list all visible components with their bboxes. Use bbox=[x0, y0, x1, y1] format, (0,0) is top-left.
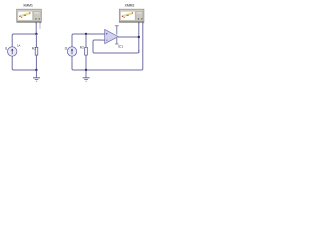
op-amp IC1 V+ pin bar bbox=[115, 25, 119, 27]
node C junction dot (top of R2) bbox=[85, 33, 87, 35]
multimeter XMM2 terminal pins bbox=[138, 22, 139, 23]
wire XMM2 left terminal down through node B to feedback rail bbox=[138, 23, 140, 53]
op-amp IC1 V+ pin stub bbox=[116, 26, 118, 35]
wire feedback corner bbox=[137, 50, 138, 53]
wire top rail I2 to op-amp input bbox=[72, 34, 105, 47]
wire node C to R2 top bbox=[85, 34, 87, 47]
multimeter XMM2 body bbox=[119, 9, 144, 22]
node A junction dot bbox=[35, 33, 37, 35]
op-amp IC1 V- pin bar bbox=[115, 43, 118, 45]
ground (right circuit) bbox=[83, 70, 90, 81]
multimeter XMM1 terminal pins bbox=[36, 22, 37, 23]
wire XMM2 right terminal down to bottom rail bbox=[86, 23, 143, 70]
wire feedback loop to inverting input bbox=[93, 40, 137, 53]
op-amp IC1 V- pin stub bbox=[116, 38, 118, 44]
svg-text:IC1: IC1 bbox=[118, 45, 123, 49]
wire op-amp output to node B bbox=[118, 36, 139, 38]
multimeter XMM1 body bbox=[17, 9, 42, 22]
resistor R1 bbox=[35, 47, 38, 55]
wire XMM1 left terminal down to node A bbox=[35, 23, 37, 34]
wire I2 bottom to bottom rail bbox=[72, 56, 86, 70]
svg-text:XMM2: XMM2 bbox=[125, 4, 135, 8]
wire XMM1 right terminal stub bbox=[39, 23, 41, 29]
svg-text:XMM1: XMM1 bbox=[23, 4, 33, 8]
wire R1 bottom to ground node bbox=[35, 55, 37, 70]
node B junction dot bbox=[138, 36, 140, 38]
wire node A horizontal to source I1 bbox=[12, 34, 36, 47]
wire node A to R1 top bbox=[35, 34, 37, 47]
op-amp IC1 bbox=[101, 29, 119, 43]
wire R2 bottom to bottom node bbox=[85, 55, 87, 70]
wire I1 bottom to bottom rail bbox=[12, 56, 36, 70]
svg-text:I2: I2 bbox=[65, 46, 68, 50]
resistor R2 bbox=[85, 47, 88, 55]
svg-text:1A: 1A bbox=[17, 43, 21, 47]
svg-text:I1: I1 bbox=[5, 46, 8, 50]
current source I1 bbox=[8, 47, 17, 56]
current source I2 bbox=[67, 47, 76, 56]
bottom node junction dot (right circuit) bbox=[85, 69, 87, 71]
bottom node junction dot (left circuit) bbox=[35, 69, 37, 71]
svg-text:R2: R2 bbox=[80, 46, 84, 50]
ground (left circuit) bbox=[33, 70, 40, 81]
svg-text:R1: R1 bbox=[32, 46, 36, 50]
